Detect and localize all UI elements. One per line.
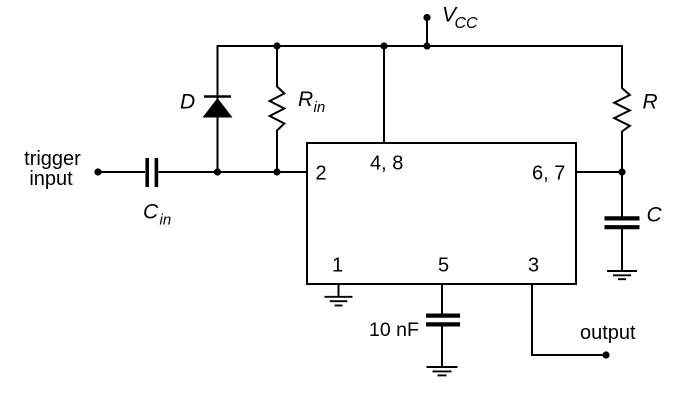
svg-text:CC: CC [455,15,479,32]
svg-text:6, 7: 6, 7 [532,163,565,185]
wire Vcc stub [426,18,428,47]
resistor R [614,88,630,132]
svg-text:input: input [29,168,73,190]
wire pin 4,8 drop [383,46,385,143]
diode D [203,97,233,118]
ground pin 1 [325,297,353,306]
trigger input terminal dot [94,168,101,175]
svg-text:R: R [643,91,658,114]
svg-text:1: 1 [332,255,343,277]
junction node pin6,7/R/C [618,168,625,175]
wire R branch leads [621,45,623,172]
wire diode branch vertical [217,45,219,172]
wire Rin branch leads [276,45,278,172]
wire pin 5 stub [441,284,443,314]
svg-text:3: 3 [528,255,539,277]
junction rail/pin4-8 [380,42,387,49]
capacitor 10 nF [426,316,460,325]
svg-text:C: C [647,204,663,227]
svg-text:in: in [314,99,326,116]
svg-text:R: R [298,88,313,111]
Vcc terminal dot [423,14,430,21]
label trigger input [24,148,81,190]
wire Cin to pin 2 [159,171,308,173]
ground below C [607,271,637,279]
svg-text:5: 5 [438,255,449,277]
wire pin 6,7 to R/C node [576,171,622,173]
svg-text:2: 2 [316,163,327,185]
svg-text:trigger: trigger [24,148,81,170]
ground below 10 nF [427,367,458,375]
svg-text:D: D [180,91,195,114]
svg-text:in: in [160,212,172,229]
svg-text:C: C [143,201,159,224]
wire pin 1 stub [338,284,340,297]
junction rail/Rin [273,42,280,49]
wire pin 3 output [532,284,606,355]
wire node to capacitor C [621,172,623,217]
label Cin [143,201,171,229]
junction trigger/Rin [273,168,280,175]
capacitor Cin [147,158,156,187]
label Rin [298,88,325,116]
capacitor C [605,218,640,227]
output terminal dot [602,351,609,358]
wire top supply rail [217,45,623,47]
wire capacitor C to ground [621,229,623,271]
svg-text:10 nF: 10 nF [369,319,419,341]
junction rail/Vcc [423,42,430,49]
wire 10 nF to ground [441,327,443,368]
resistor Rin [270,87,285,131]
wire trigger to Cin [98,171,145,173]
IC U1 555 timer body [307,143,576,284]
svg-text:4, 8: 4, 8 [370,153,403,175]
junction trigger/diode [214,168,221,175]
label VCC [442,4,478,33]
svg-text:output: output [580,322,636,344]
